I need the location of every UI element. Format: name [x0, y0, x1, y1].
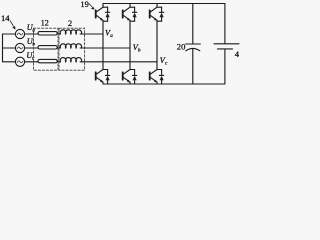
diode D6: [157, 70, 164, 85]
wire bottom DC bus: [103, 83, 225, 85]
wire stub phase c: [3, 61, 16, 63]
svg-text:4: 4: [235, 49, 240, 59]
diode D4: [103, 70, 110, 85]
wire phase c to leg 3: [80, 61, 157, 63]
svg-text:2: 2: [68, 18, 72, 28]
resistor 12c: [38, 59, 57, 62]
diode D2: [130, 7, 137, 21]
wire phase b to leg 2: [80, 47, 130, 49]
svg-text:12: 12: [41, 18, 49, 28]
wire resistor b to inductor: [57, 47, 60, 49]
transistor Q6: [150, 70, 158, 85]
diode D3: [157, 7, 164, 21]
wire source c to resistor: [25, 61, 38, 63]
transistor Q3: [150, 4, 158, 21]
transistor Q2: [123, 4, 131, 21]
svg-text:20: 20: [177, 41, 186, 51]
resistor 12a: [38, 32, 57, 35]
AC source Ua: [15, 29, 24, 38]
wire leg 3 midpoint: [156, 20, 158, 69]
wire phase a to leg 1: [80, 33, 103, 35]
svg-text:14: 14: [1, 13, 10, 23]
AC source Ub: [15, 43, 24, 52]
diode D5: [130, 70, 137, 85]
transistor Q5: [123, 70, 131, 85]
battery 4: [214, 4, 239, 85]
diode D1: [103, 7, 110, 21]
capacitor 20: [186, 4, 201, 85]
wire leg 1 midpoint: [102, 20, 104, 69]
leader arrow 19: [89, 3, 93, 7]
inductor 2b: [60, 44, 81, 48]
wire neutral bus left: [2, 34, 4, 62]
wire resistor a to inductor: [57, 33, 60, 35]
resistor 12b: [38, 46, 57, 49]
wire stub phase a: [3, 33, 16, 35]
wire source b to resistor: [25, 47, 38, 49]
wire top DC bus: [103, 3, 225, 5]
wire source a to resistor: [25, 33, 38, 35]
svg-text:19: 19: [80, 0, 88, 9]
transistor Q1: [96, 4, 104, 21]
transistor Q4: [96, 70, 104, 85]
inductor 2a: [60, 30, 81, 34]
wire stub phase b: [3, 47, 16, 49]
inductor 2c: [60, 58, 81, 62]
wire resistor c to inductor: [57, 61, 60, 63]
leader arrow 14: [10, 21, 14, 27]
dashed box 2: [59, 28, 85, 70]
dashed box 12: [34, 28, 59, 70]
wire leg 2 midpoint: [129, 20, 131, 69]
AC source Uc: [15, 57, 24, 66]
